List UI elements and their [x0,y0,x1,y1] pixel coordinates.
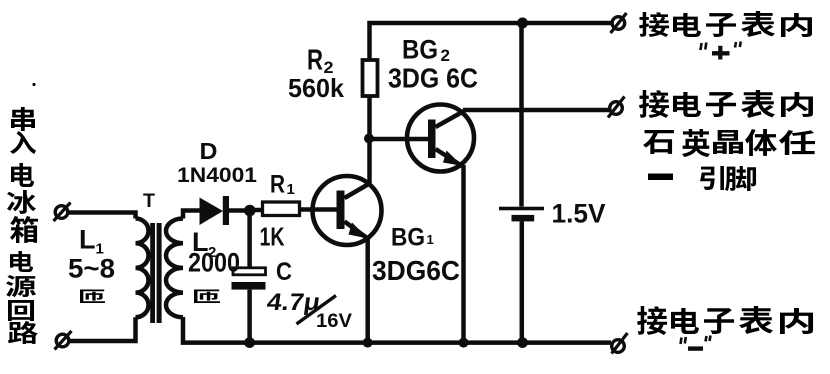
svg-text:560k: 560k [288,73,345,103]
svg-text:1N4001: 1N4001 [177,164,257,187]
svg-text:1: 1 [427,232,434,247]
svg-text:R: R [307,45,323,77]
svg-text:1K: 1K [260,222,285,252]
svg-text:BG: BG [391,224,425,252]
svg-text:D: D [200,138,218,164]
svg-text:R: R [270,171,285,199]
svg-text:3DG 6C: 3DG 6C [388,63,478,94]
svg-text:1.5V: 1.5V [552,199,606,229]
svg-text:BG: BG [402,35,438,65]
svg-text:L: L [79,225,96,255]
svg-text:1: 1 [287,181,295,198]
svg-text:16V: 16V [316,310,352,332]
svg-text:T: T [143,190,155,212]
svg-text:5~8: 5~8 [68,254,115,284]
svg-text:2000: 2000 [188,248,240,278]
svg-text:3DG6C: 3DG6C [372,255,460,286]
svg-text:C: C [276,258,292,286]
